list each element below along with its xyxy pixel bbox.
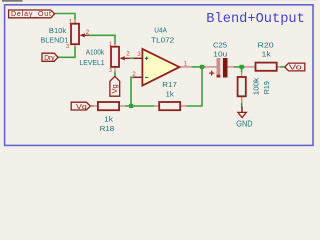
sheet border: [5, 5, 313, 146]
junction C25/R19/R20 node: [240, 65, 244, 69]
resistor R17: [154, 102, 186, 110]
svg-text:C25: C25: [213, 40, 227, 49]
svg-text:3: 3: [109, 68, 112, 74]
svg-text:Dry: Dry: [44, 53, 55, 62]
plus mark: [209, 71, 214, 76]
pin 3 stub: [74, 44, 76, 47]
wire LEVEL1 pin3 to Vg flag: [114, 71, 116, 76]
potentiometer BLEND1: [66, 19, 90, 50]
svg-text:Vo: Vo: [289, 63, 302, 72]
svg-text:2: 2: [86, 29, 90, 36]
global label Vg vertical flag: [110, 76, 120, 96]
ground symbol: [238, 107, 246, 118]
pin 1 stub: [74, 20, 76, 24]
svg-text:Vg: Vg: [112, 84, 119, 93]
svg-text:B10k: B10k: [49, 26, 67, 35]
wire Dry to BLEND1 pin3: [58, 47, 75, 58]
svg-text:R19: R19: [262, 81, 271, 94]
body: [111, 47, 119, 67]
pin 3 line: [133, 57, 142, 59]
svg-text:Vg: Vg: [76, 102, 87, 111]
left plate: [217, 58, 221, 78]
svg-text:GND: GND: [236, 120, 253, 129]
svg-text:2: 2: [126, 51, 130, 58]
pin 1 output line: [179, 66, 192, 68]
wiper arrow: [80, 33, 85, 37]
svg-text:2: 2: [132, 71, 136, 78]
global label Dry: [42, 53, 58, 62]
svg-text:TL072: TL072: [151, 35, 174, 44]
wire C25 to junction2: [233, 66, 245, 68]
global label Vg: [71, 102, 90, 111]
triangle body: [142, 49, 179, 86]
svg-text:1: 1: [184, 61, 188, 68]
svg-text:1k: 1k: [104, 115, 113, 124]
resistor R19 (vertical): [238, 72, 246, 103]
global label Delay_Out: [9, 10, 55, 18]
wire R20 to Vo: [280, 66, 285, 68]
svg-text:BLEND1: BLEND1: [41, 36, 69, 45]
wire R18 to feedback junction: [125, 105, 131, 107]
svg-text:100k: 100k: [252, 77, 261, 95]
svg-text:1k: 1k: [262, 50, 272, 59]
global label Vo: [285, 63, 305, 72]
wire op-amp output node: [192, 66, 206, 68]
wire R19 to GND: [241, 103, 243, 107]
svg-text:A100k: A100k: [86, 48, 105, 57]
potentiometer LEVEL1: [109, 42, 130, 74]
svg-text:R18: R18: [100, 124, 115, 133]
wiper arrow: [120, 56, 125, 60]
junction feedback node: [129, 104, 133, 108]
capacitor C25: [205, 58, 235, 78]
resistor R20: [245, 63, 280, 71]
body: [71, 24, 79, 45]
right plate: [223, 58, 228, 78]
pin 2 line: [133, 76, 142, 78]
wire junction2 down to R19: [241, 67, 243, 72]
wire Delay_Out to BLEND1 pin1: [55, 14, 75, 20]
svg-text:1k: 1k: [166, 90, 175, 99]
svg-text:Blend+Output: Blend+Output: [206, 12, 305, 27]
svg-text:U4A: U4A: [154, 26, 167, 35]
wire op-amp pin2 to feedback node: [131, 77, 133, 106]
junction output node: [200, 65, 204, 69]
resistor R18: [90, 102, 125, 110]
op-amp U4A: [132, 49, 192, 86]
wire R17 to output node: [186, 67, 202, 106]
svg-text:3: 3: [66, 44, 69, 50]
svg-text:10u: 10u: [213, 50, 227, 59]
pin 1 stub: [114, 44, 116, 47]
top gray edge line: [0, 0, 316, 1]
minus mark: [145, 77, 149, 79]
wire LEVEL1 wiper to op-amp pin3: [130, 57, 134, 59]
pin 3 stub: [114, 67, 116, 72]
svg-text:R17: R17: [162, 80, 177, 89]
svg-text:R20: R20: [258, 40, 274, 49]
svg-text:Delay_Out: Delay_Out: [11, 11, 51, 18]
svg-text:3: 3: [137, 51, 141, 58]
plus mark: [145, 57, 149, 61]
wire junction to R17: [131, 105, 154, 107]
wire BLEND1 wiper to LEVEL1 pin1: [89, 35, 115, 44]
wire Vg label to R18: [90, 105, 94, 107]
svg-text:LEVEL1: LEVEL1: [79, 58, 104, 67]
